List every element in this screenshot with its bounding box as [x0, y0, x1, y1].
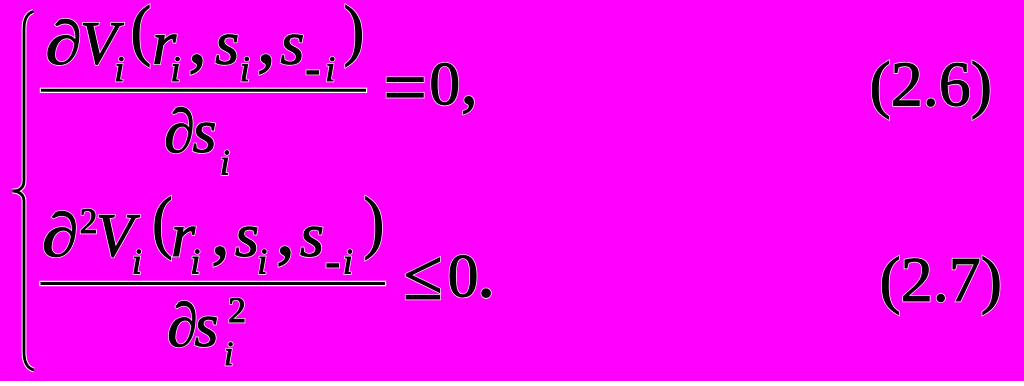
- s_i of eq 2.6 numerator: [216, 35, 237, 65]
- equation number label (2.6): [872, 61, 989, 119]
- s of eq 2.6 denominator: [193, 123, 214, 153]
- subscript i after r eq 2.7: [192, 250, 199, 274]
- fraction bar of eq 2.7: [41, 282, 386, 285]
- left parenthesis eq 2.7 numerator: [155, 197, 171, 260]
- minus of subscript -i eq 2.7: [327, 264, 339, 267]
- big left curly brace of the equation system: [13, 12, 35, 371]
- partial dee of eq 2.7 numerator: [44, 211, 75, 257]
- superscript 2 on partial eq 2.7: [81, 209, 95, 233]
- minus of subscript -i eq 2.6: [307, 71, 319, 74]
- partial dee of eq 2.7 denominator: [169, 301, 195, 347]
- s of eq 2.7 denominator: [195, 317, 216, 347]
- zero of eq 2.7: [450, 255, 476, 297]
- right parenthesis eq 2.7 numerator: [366, 197, 382, 260]
- subscript i of eq 2.6 denominator: [222, 151, 229, 175]
- equation number label (2.7): [882, 257, 999, 315]
- r of eq 2.7 numerator: [174, 227, 196, 256]
- fraction bar of eq 2.6: [41, 89, 366, 92]
- V of eq 2.6 numerator: [83, 23, 124, 65]
- second comma eq 2.7 numerator: [279, 247, 290, 267]
- first comma eq 2.7 numerator: [214, 247, 225, 267]
- subscript i after r eq 2.6: [173, 57, 180, 81]
- left parenthesis eq 2.6 numerator: [133, 5, 149, 67]
- second comma eq 2.6 numerator: [260, 55, 271, 75]
- s_i of eq 2.7 numerator: [236, 227, 257, 257]
- V of eq 2.7 numerator: [99, 215, 140, 257]
- s_-i of eq 2.6 numerator: [281, 35, 302, 65]
- zero of eq 2.6: [432, 63, 458, 105]
- r of eq 2.6 numerator: [155, 35, 177, 64]
- comma after zero eq 2.6: [463, 96, 473, 113]
- subscript i after V eq 2.7: [134, 250, 141, 274]
- partial dee of eq 2.6 denominator: [166, 107, 192, 153]
- subscript i of -i eq 2.6: [327, 57, 334, 81]
- right parenthesis eq 2.6 numerator: [346, 5, 362, 67]
- less-than-or-equal sign of eq 2.7: [406, 258, 440, 299]
- s_-i of eq 2.7 numerator: [301, 227, 322, 257]
- subscript i after s eq 2.6: [242, 57, 249, 81]
- period after zero eq 2.7: [482, 289, 491, 298]
- subscript i after s eq 2.7: [259, 250, 266, 274]
- subscript i of -i eq 2.7: [345, 250, 352, 274]
- subscript i of eq 2.7 denominator: [226, 342, 233, 365]
- subscript i after V eq 2.6: [116, 57, 123, 81]
- superscript 2 of eq 2.7 denominator: [230, 298, 244, 322]
- first comma eq 2.6 numerator: [191, 55, 202, 75]
- equals sign of eq 2.6: [387, 78, 423, 98]
- partial dee of eq 2.6 numerator: [48, 19, 79, 65]
